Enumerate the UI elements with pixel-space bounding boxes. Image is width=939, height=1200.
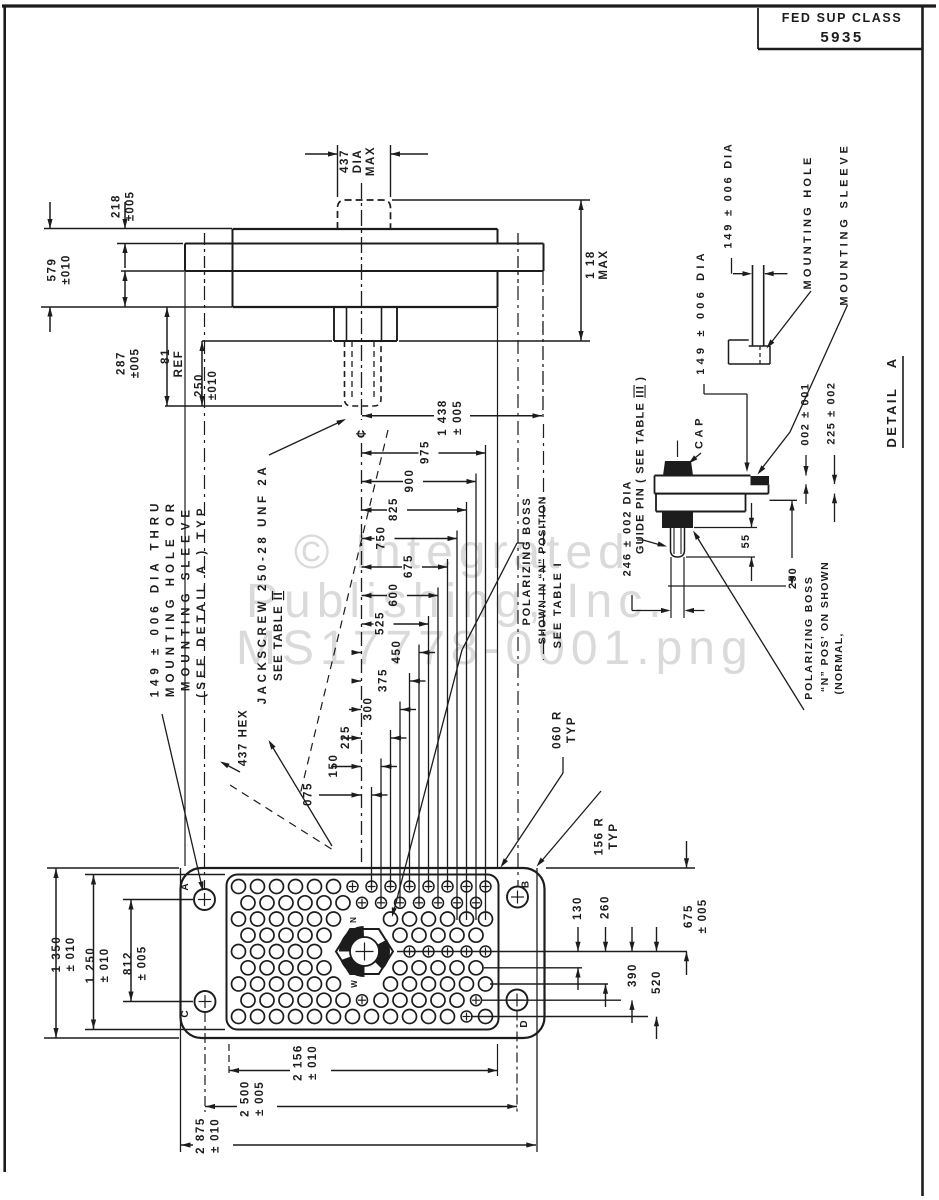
svg-text:TYP: TYP xyxy=(608,822,620,849)
dimension .150 contact spacing xyxy=(331,766,361,768)
extension line contact column 075 xyxy=(371,787,373,888)
leader jackscrew to stud xyxy=(269,420,344,455)
boss black wedge 3 xyxy=(341,957,365,978)
mounting hole A xyxy=(194,889,215,910)
extension line contact column 450 xyxy=(418,645,420,904)
leader contact row 8 xyxy=(481,999,621,1001)
extension lines detail A right xyxy=(770,499,798,501)
extension lines face left xyxy=(47,867,179,869)
svg-text:± 010: ± 010 xyxy=(307,1045,319,1080)
svg-text:© Integrated: © Integrated xyxy=(294,526,631,579)
svg-text:± 005: ± 005 xyxy=(452,400,464,435)
dimension .525 contact spacing xyxy=(362,623,374,625)
side view: jackscrew hex nut xyxy=(333,307,335,341)
side view: threaded stud (hidden, dashed) xyxy=(345,341,382,406)
svg-text:225: 225 xyxy=(340,725,352,749)
svg-text:150: 150 xyxy=(328,754,340,778)
projection line hole centerline B/D xyxy=(517,286,519,886)
extension line contact column 825 xyxy=(466,502,468,920)
svg-text:B: B xyxy=(521,881,532,888)
svg-text:SEE TABLE II: SEE TABLE II xyxy=(273,591,285,681)
svg-text:C: C xyxy=(180,1010,191,1017)
side view: mounting flange xyxy=(185,243,544,245)
svg-text:250: 250 xyxy=(787,567,799,589)
mounting hole D xyxy=(507,990,528,1011)
leader contact row 6 xyxy=(484,967,582,969)
svg-text:MAX: MAX xyxy=(365,146,377,176)
leader mounting sleeve xyxy=(759,305,848,472)
dimension 1.250 +-.010 xyxy=(93,875,95,1030)
detail A: panel body band xyxy=(656,493,746,495)
extension line contact column 750 xyxy=(456,531,458,921)
dimension .520 xyxy=(656,927,658,951)
dimension 1.18 MAX xyxy=(580,200,582,341)
svg-text:2 500: 2 500 xyxy=(240,1080,252,1117)
extension line contact column 600 xyxy=(437,588,439,904)
svg-text:520: 520 xyxy=(651,970,663,994)
face view: outer flange outline xyxy=(181,868,545,1038)
extension line contact column 150 xyxy=(380,759,382,904)
svg-text:300: 300 xyxy=(363,697,375,721)
svg-text:FED SUP CLASS: FED SUP CLASS xyxy=(782,11,903,25)
dimension .579 +-.010 xyxy=(49,202,51,228)
svg-text:A: A xyxy=(180,883,191,890)
svg-text:CAP: CAP xyxy=(694,415,706,449)
svg-text:060 R: 060 R xyxy=(552,710,564,749)
svg-text:1 250: 1 250 xyxy=(85,947,97,984)
svg-text:¢: ¢ xyxy=(353,430,370,438)
dimension .149 +-.006 DIA (mounting hole) xyxy=(731,258,733,274)
leader guide pin xyxy=(637,539,643,541)
dimension 1.438 +-.005 xyxy=(542,271,544,420)
extension line contact column 225 xyxy=(390,730,392,888)
projection line hole centerline A/C xyxy=(204,286,206,888)
svg-text:REF: REF xyxy=(173,350,185,378)
projection line stud to boss (dashed) xyxy=(300,430,388,795)
dimension .130 xyxy=(577,927,579,951)
svg-text:POLARIZING BOSS: POLARIZING BOSS xyxy=(521,496,533,625)
dimension .250 (detail) xyxy=(791,500,793,558)
extension line contact column 525 xyxy=(428,616,430,888)
svg-text:1 350: 1 350 xyxy=(51,936,63,973)
svg-text:DIA: DIA xyxy=(352,149,364,174)
boss center hole xyxy=(350,937,379,966)
mounting hole B xyxy=(507,887,528,908)
svg-text:±010: ±010 xyxy=(207,370,219,400)
dimension .900 contact spacing xyxy=(362,481,404,483)
extension line: body top xyxy=(44,228,232,230)
svg-text:156 R: 156 R xyxy=(594,817,606,856)
dimension .675 contact spacing xyxy=(362,566,403,568)
side view: jackscrew head (hidden, dashed) xyxy=(338,200,391,229)
leader mounting hole xyxy=(769,291,812,346)
dimension .450 contact spacing xyxy=(355,652,361,654)
svg-text:975: 975 xyxy=(420,440,432,464)
svg-text:GUIDE PIN ( SEE TABLE III ): GUIDE PIN ( SEE TABLE III ) xyxy=(635,376,647,554)
page border frame xyxy=(2,4,936,7)
svg-text:750: 750 xyxy=(376,526,388,550)
extension line contact column 675 xyxy=(447,559,449,888)
svg-text:MOUNTING HOLE OR: MOUNTING HOLE OR xyxy=(165,499,177,697)
svg-text:900: 900 xyxy=(404,469,416,493)
dimension .075 contact spacing xyxy=(319,794,361,796)
svg-text:2 156: 2 156 xyxy=(293,1044,305,1081)
dimension 1.350 +-.010 xyxy=(55,868,57,1038)
svg-text:± 010: ± 010 xyxy=(210,1118,222,1153)
leader contact row 7 xyxy=(490,983,608,985)
svg-text:55: 55 xyxy=(740,534,752,549)
dimension .287 +-.005 xyxy=(124,271,126,307)
dimension .81 REF xyxy=(166,307,168,406)
svg-text:450: 450 xyxy=(391,640,403,664)
svg-text:JACKSCREW 250-28 UNF 2A: JACKSCREW 250-28 UNF 2A xyxy=(257,464,269,705)
detail A: pin centerline xyxy=(677,441,679,458)
svg-text:5935: 5935 xyxy=(820,29,863,46)
svg-text:130: 130 xyxy=(572,896,584,920)
FED SUP CLASS title block xyxy=(757,8,759,49)
svg-text:390: 390 xyxy=(627,963,639,987)
mounting hole centerline left (A/C) xyxy=(204,233,206,283)
svg-text:600: 600 xyxy=(388,583,400,607)
leader contact row 5 xyxy=(397,951,687,953)
dimension 2.500 +-.005 xyxy=(205,1106,237,1108)
extension line contact column 900 xyxy=(475,474,477,921)
detail A: sleeve flange xyxy=(655,475,751,477)
svg-text:D: D xyxy=(519,1020,530,1027)
dimension .250 +-.010 stud length xyxy=(201,341,203,406)
svg-text:± 010: ± 010 xyxy=(99,948,111,983)
dimension .812 +-.005 xyxy=(130,900,132,1002)
extension line: hex bottom xyxy=(202,340,332,342)
svg-text:MS17778-0001.png: MS17778-0001.png xyxy=(236,622,754,675)
svg-text:812: 812 xyxy=(123,951,135,975)
leader contact row 9 xyxy=(471,1016,648,1018)
svg-text:525: 525 xyxy=(375,611,387,635)
extension line: body bottom xyxy=(41,306,232,308)
detail A: panel right portion xyxy=(751,483,769,485)
svg-text:± 005: ± 005 xyxy=(254,1081,266,1116)
svg-text:(SEE DETAIL A ) TYP: (SEE DETAIL A ) TYP xyxy=(196,504,208,698)
svg-text:± 010: ± 010 xyxy=(65,937,77,972)
svg-text:SHOWN IN “N” POSITION: SHOWN IN “N” POSITION xyxy=(537,496,549,645)
svg-text:±005: ±005 xyxy=(125,191,137,221)
mounting hole C xyxy=(195,991,216,1012)
projection line flange right edge lower xyxy=(536,868,538,1152)
svg-text:675: 675 xyxy=(683,904,695,928)
projection line body right edge xyxy=(497,308,499,867)
leader line with arrow (hex projection) xyxy=(270,742,333,846)
svg-text:375: 375 xyxy=(378,668,390,692)
detail A: polarizing boss (black) xyxy=(662,512,693,529)
svg-text:149 ± 006 DIA THRU: 149 ± 006 DIA THRU xyxy=(150,499,162,698)
contact hole grid xyxy=(232,880,246,894)
detail A: guide pin xyxy=(671,528,685,557)
extension line: flange top xyxy=(117,243,183,245)
svg-text:±005: ±005 xyxy=(130,348,142,378)
dimension .218 +-.005 xyxy=(124,202,126,228)
svg-text:81: 81 xyxy=(160,348,172,364)
dimension .750 contact spacing xyxy=(362,538,375,540)
svg-text:± 005: ± 005 xyxy=(137,946,149,981)
watermark text xyxy=(236,526,754,675)
svg-text:825: 825 xyxy=(388,497,400,521)
svg-text:SEE TABLE I: SEE TABLE I xyxy=(552,562,564,649)
dimension .825 contact spacing xyxy=(362,509,388,511)
extension lines face bottom xyxy=(228,1044,230,1076)
svg-text:437 HEX: 437 HEX xyxy=(238,709,250,766)
extension line contact column 375 xyxy=(409,673,411,888)
extension line: stud end xyxy=(165,405,342,407)
svg-text:149 ± 006 DIA: 149 ± 006 DIA xyxy=(695,249,707,374)
svg-text:225 ± 002: 225 ± 002 xyxy=(826,381,838,444)
dimension .260 xyxy=(605,927,607,951)
detail A: cap (black) xyxy=(663,461,693,476)
svg-text:MOUNTING HOLE: MOUNTING HOLE xyxy=(802,154,814,289)
dimension 2.156 +-.010 xyxy=(229,1070,290,1072)
dimension .246 +-.002 DIA guide pin xyxy=(670,557,672,618)
leader to mounting hole A xyxy=(162,714,203,889)
svg-text:TYP: TYP xyxy=(566,716,578,743)
leader cap xyxy=(690,453,701,462)
svg-text:MOUNTING SLEEVE: MOUNTING SLEEVE xyxy=(181,505,193,691)
leader polarizing boss detail xyxy=(695,533,805,710)
face view: insert face outline xyxy=(227,875,499,1030)
svg-text:675: 675 xyxy=(403,554,415,578)
leader arrow .437 HEX xyxy=(222,763,240,773)
svg-text:DETAIL A: DETAIL A xyxy=(884,356,899,447)
svg-text:N: N xyxy=(349,917,358,923)
svg-text:075: 075 xyxy=(303,782,315,806)
dimension .975 contact spacing xyxy=(362,452,419,454)
svg-text:260: 260 xyxy=(600,895,612,919)
svg-text:149 ± 006 DIA: 149 ± 006 DIA xyxy=(723,141,735,248)
svg-text:POLARIZING BOSS: POLARIZING BOSS xyxy=(803,575,815,699)
dimension .675 +-.005 xyxy=(686,841,688,868)
svg-text:218: 218 xyxy=(111,194,123,218)
dimension .390 xyxy=(631,927,633,951)
boss black wedge 1 xyxy=(339,926,364,952)
svg-text:(NORMAL,: (NORMAL, xyxy=(833,632,845,694)
detail A: seal (black) xyxy=(751,476,770,484)
svg-text:250: 250 xyxy=(194,373,206,397)
dimension .437 DIA MAX xyxy=(337,145,339,197)
projection line flange left edge xyxy=(180,868,182,1152)
extension line: jackscrew head top xyxy=(392,199,590,201)
svg-text:437: 437 xyxy=(339,149,351,173)
mounting hole centerline right (B/D) xyxy=(517,233,519,283)
svg-text:MOUNTING SLEEVE: MOUNTING SLEEVE xyxy=(839,142,851,305)
side view: vertical centerline xyxy=(361,183,363,420)
svg-text:002 ± 001: 002 ± 001 xyxy=(800,382,812,445)
dimension .225 contact spacing xyxy=(342,737,361,739)
dimension .55 xyxy=(751,503,753,527)
extension line face top edge xyxy=(546,867,695,869)
extension line contact column 300 xyxy=(399,702,401,904)
leader .156 R xyxy=(539,791,601,864)
svg-text:1 438: 1 438 xyxy=(437,399,449,436)
dimension .375 contact spacing xyxy=(353,680,361,682)
dimension .300 contact spacing xyxy=(349,709,361,711)
dimension 2.875 +-.010 xyxy=(181,1144,194,1146)
svg-text:±010: ±010 xyxy=(61,254,73,284)
extension line contact column 975 xyxy=(485,445,487,920)
boss black wedge 2 xyxy=(375,940,390,970)
svg-text:“N” POS’ ON SHOWN: “N” POS’ ON SHOWN xyxy=(819,561,831,692)
leader .060 R xyxy=(562,757,564,773)
extension line: flange bottom xyxy=(121,270,230,272)
svg-text:± 005: ± 005 xyxy=(697,899,709,934)
svg-text:246 ± 002 DIA: 246 ± 002 DIA xyxy=(622,480,634,577)
svg-text:2 875: 2 875 xyxy=(195,1117,207,1154)
polarizing boss hexagon xyxy=(336,929,393,974)
detail A: mounting hole sketch panel xyxy=(752,265,754,346)
svg-text:1 18: 1 18 xyxy=(585,250,597,279)
svg-text:MAX: MAX xyxy=(598,249,610,279)
leader polarizing boss to face xyxy=(517,542,524,544)
dimension .600 contact spacing xyxy=(362,595,388,597)
centerline continuation to face xyxy=(361,443,363,868)
side view: connector body outline xyxy=(233,228,498,230)
svg-text:W: W xyxy=(350,980,359,988)
svg-text:579: 579 xyxy=(47,258,59,282)
svg-text:287: 287 xyxy=(116,351,128,375)
